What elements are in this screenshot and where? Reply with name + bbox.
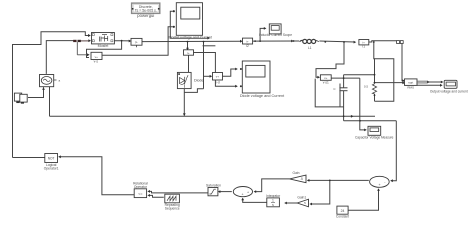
wire split down to gain1 <box>311 180 330 204</box>
svg-text:v-s: v-s <box>94 59 99 63</box>
svg-text:Integrator: Integrator <box>266 194 281 198</box>
wire horizontal tie capacitor node to load branch <box>344 74 375 76</box>
wire ground rail <box>50 115 376 117</box>
svg-text:Saturation: Saturation <box>206 184 221 188</box>
logical operator NOT block <box>44 154 59 171</box>
current measure i-L <box>243 38 253 48</box>
wire node sense to scope1 input 1 <box>170 11 208 38</box>
svg-text:0.5: 0.5 <box>364 85 369 89</box>
svg-text:Constant: Constant <box>336 215 349 219</box>
wire Kp gain output into sum1 <box>255 179 290 192</box>
wire sum2 output to gain split junction <box>330 179 369 181</box>
wire v-d output to scope2 input 1 <box>223 69 237 76</box>
wire resistor tap to RMS input 2 <box>375 82 404 84</box>
wire gate signal loop (left side) <box>13 32 89 158</box>
wire cross tie segment <box>203 45 216 47</box>
svg-text:s: s <box>272 203 274 207</box>
svg-text:.5: .5 <box>300 177 303 181</box>
svg-text:Diode: Diode <box>194 79 203 83</box>
wire junction to v-s sense jog <box>316 42 344 77</box>
scope U2 Diode voltage and Current <box>240 61 285 98</box>
wire goto tag down right side to RMS input 1 <box>402 43 404 80</box>
svg-text:Gain1: Gain1 <box>297 196 306 200</box>
svg-text:v+: v+ <box>324 76 328 80</box>
wire rail i-L output to inductor <box>253 40 299 42</box>
goto tag connector <box>397 41 404 44</box>
svg-text:+: + <box>247 190 249 194</box>
wire capacitor left leg <box>339 84 341 107</box>
svg-text:Gain: Gain <box>293 171 300 175</box>
svg-text:powergui: powergui <box>137 13 154 18</box>
svg-text:Inductor Current Scope: Inductor Current Scope <box>259 33 292 37</box>
wire saturation output to relational operator input 1 <box>149 191 209 193</box>
repeating sequence sawtooth source <box>165 194 180 210</box>
svg-text:1: 1 <box>272 199 274 203</box>
svg-text:sqrt: sqrt <box>408 81 413 85</box>
relational operator block <box>133 181 148 197</box>
svg-text:v+: v+ <box>95 55 99 59</box>
wire relational operator output to logical operator <box>60 157 135 195</box>
wire diode cathode to ground rail <box>183 89 185 116</box>
wire split to Kp gain <box>308 179 330 181</box>
inductor L coil <box>300 39 319 43</box>
display output voltage and current <box>430 80 468 93</box>
svg-text:+: + <box>241 193 243 197</box>
capacitor voltage measure display <box>355 126 394 139</box>
svg-text:Capacitor Voltage Measure: Capacitor Voltage Measure <box>355 135 394 139</box>
wire tie stub <box>343 75 345 78</box>
wire into v-d <box>204 75 211 77</box>
wire powergui sense to AC source bottom <box>28 89 44 98</box>
gain Kp triangle <box>290 171 306 183</box>
wire v-s measurement return loop <box>315 79 343 107</box>
svg-text:Output voltage and current: Output voltage and current <box>430 89 468 93</box>
wire feedback vertical into sum2 <box>391 121 396 181</box>
gain1 Ki triangle <box>297 196 308 207</box>
voltage measure v-s1 (mosfet) <box>91 52 102 63</box>
integrator block <box>266 194 281 207</box>
svg-text:v-s1: v-s1 <box>323 81 329 85</box>
wire junction down to load branch <box>373 42 376 84</box>
mosfet Q1 block <box>92 33 115 48</box>
wire node sense vertical to v-d input <box>203 42 205 89</box>
constant block <box>336 206 349 219</box>
svg-text:Diode voltage and Current: Diode voltage and Current <box>240 94 285 98</box>
svg-text:v+: v+ <box>216 75 220 79</box>
RMS measurement block <box>405 79 418 90</box>
svg-text:Mosfet voltage and Current: Mosfet voltage and Current <box>169 36 212 40</box>
svg-text:NOT: NOT <box>48 157 55 161</box>
wire rail inductor to i1 current measure <box>319 41 354 42</box>
wire diode branch tap from rail <box>187 42 189 49</box>
resistor R load zigzag <box>372 84 376 94</box>
svg-text:RMS: RMS <box>407 86 414 90</box>
svg-text:i+: i+ <box>135 40 138 44</box>
wire AC source bottom to ground rail <box>49 87 51 117</box>
wire capacitor branch <box>343 78 345 88</box>
wire sum1 output to saturation <box>219 191 232 193</box>
scope U3 Inductor Current Scope <box>259 24 292 37</box>
arrowheads <box>42 27 443 205</box>
wire capacitor bottom to ground node <box>343 91 345 121</box>
wire ground node to feedback drop <box>344 120 397 122</box>
svg-text:v-d: v-d <box>215 80 220 84</box>
scope U1 Mosfet voltage and Current <box>169 3 212 40</box>
wire i-d signal to scope2 input 2 <box>194 53 237 87</box>
wire dark red segment into mosfet <box>73 40 90 55</box>
svg-text:Operator1: Operator1 <box>44 166 59 170</box>
wide signal stub <box>417 81 427 83</box>
wire gain1 output to integrator <box>285 202 297 204</box>
wire tap to inductor current scope <box>260 28 265 41</box>
wire repeating sequence output to relational operator input 2 <box>149 195 164 197</box>
powergui block <box>132 3 160 18</box>
svg-text:Operator: Operator <box>134 185 148 189</box>
wire v-s1 output across to capacitor measure vertical <box>331 77 360 79</box>
wire rail i-M output to i-L block <box>142 40 242 42</box>
wire parallel loop rectangle <box>375 59 394 102</box>
wire integrator output into sum1 bottom <box>243 199 267 203</box>
wire i-d to diode anode <box>188 55 190 72</box>
svg-text:i2: i2 <box>246 44 249 48</box>
current measure i-d (diode branch) <box>184 50 194 55</box>
wire i1 output to goto connector <box>369 41 397 42</box>
wire logical operator output to left vertical <box>13 157 45 159</box>
wire rail mosfet output to current measure i-M <box>122 40 130 42</box>
capacitor C plates <box>339 87 347 89</box>
svg-text:24: 24 <box>341 209 345 213</box>
saturation block <box>206 184 221 196</box>
voltage measure v-s1 (output) <box>320 75 331 85</box>
svg-text:+: + <box>378 183 380 187</box>
AC voltage source V1 <box>40 75 61 89</box>
diode D1 block <box>177 72 203 88</box>
current measure i-M <box>131 38 142 47</box>
powergui sense block (dual squares) <box>14 93 27 103</box>
svg-text:i1: i1 <box>363 45 366 49</box>
wire mosfet output jog down to v-s1 measure <box>87 41 122 58</box>
current measure i1 (output) <box>359 40 369 49</box>
wire v-s1 left output to scope1 input 2 <box>102 27 172 56</box>
svg-text:Sequence: Sequence <box>165 207 180 211</box>
sum2 ellipse <box>370 176 390 187</box>
sum1 ellipse <box>233 187 252 197</box>
wire AC source top terminal to mosfet input <box>46 41 73 74</box>
svg-text:Mosfet: Mosfet <box>98 44 109 48</box>
svg-text:L1: L1 <box>308 46 312 50</box>
wire diode bottom jog <box>184 89 203 93</box>
svg-text:<=: <= <box>138 192 142 196</box>
svg-text:i+: i+ <box>187 51 190 55</box>
wire vertical down to capacitor voltage measure block <box>360 78 366 130</box>
wire RMS outputs to display <box>417 81 442 83</box>
wire load branch below resistor <box>374 94 376 101</box>
voltage measure v-d <box>213 73 223 85</box>
wire constant to sum2 bottom <box>348 189 378 210</box>
